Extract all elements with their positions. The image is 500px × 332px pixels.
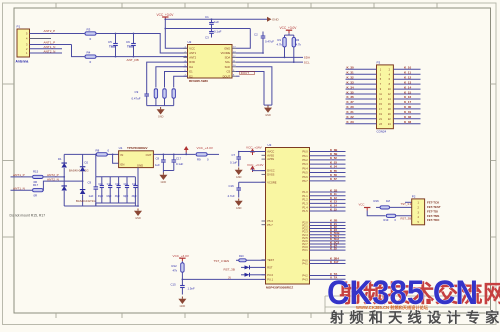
wire U2 GND pin up — [236, 29, 250, 49]
wire P3 right row 10 — [393, 113, 420, 115]
ic U3 MSP430 — [266, 148, 310, 285]
wire pin3 — [30, 44, 72, 46]
svg-text:P5.4: P5.4 — [267, 219, 273, 223]
svg-text:TST_3.3EN: TST_3.3EN — [214, 259, 230, 263]
svg-text:K_12: K_12 — [404, 75, 412, 79]
svg-text:FET-TDI: FET-TDI — [427, 209, 438, 213]
svg-text:BF6905-5980: BF6905-5980 — [189, 79, 208, 83]
svg-text:K_23: K_23 — [347, 120, 355, 124]
svg-text:P6.5: P6.5 — [302, 171, 308, 175]
svg-text:K_17: K_17 — [404, 100, 412, 104]
wire U3 P6.1 — [310, 155, 346, 157]
svg-text:DVSS: DVSS — [267, 173, 274, 177]
svg-text:SCL: SCL — [225, 60, 231, 64]
svg-text:VCORE: VCORE — [221, 51, 231, 55]
wire junction to R4 — [72, 45, 85, 57]
svg-text:C9: C9 — [135, 90, 139, 94]
svg-text:R19: R19 — [384, 218, 389, 222]
ground U2 cluster — [157, 107, 165, 119]
svg-text:GND: GND — [265, 114, 271, 117]
wire P3 left row 5 — [346, 88, 377, 90]
wire GND rail — [165, 28, 250, 30]
wire caps bottom bus — [96, 202, 136, 204]
svg-text:P6.2: P6.2 — [302, 158, 308, 162]
svg-text:C17: C17 — [176, 156, 182, 160]
wire TST P2 — [405, 201, 412, 203]
wire E1 down — [165, 72, 188, 88]
svg-text:1uF: 1uF — [214, 20, 219, 24]
svg-text:K_36: K_36 — [347, 95, 355, 99]
wire ANT1_N — [11, 189, 33, 191]
power arrow DVCC — [250, 166, 255, 173]
wire R16 left — [376, 206, 380, 208]
ground C15 — [178, 297, 186, 309]
capacitor C14 33pF — [133, 177, 137, 203]
svg-text:P1: P1 — [17, 25, 21, 29]
wire ground join — [264, 104, 272, 106]
diode D2 bottom — [80, 190, 86, 206]
svg-text:D2: D2 — [85, 161, 89, 165]
svg-text:P4.2: P4.2 — [302, 274, 308, 278]
svg-text:33pF: 33pF — [115, 196, 121, 198]
svg-text:P1.3: P1.3 — [302, 202, 308, 206]
svg-text:GND: GND — [137, 163, 143, 167]
svg-text:P1.0: P1.0 — [302, 190, 308, 194]
wire P3 right row 12 — [393, 123, 420, 125]
svg-text:1.5nF: 1.5nF — [188, 287, 195, 291]
svg-text:K_13: K_13 — [404, 80, 412, 84]
wire E2 down — [174, 76, 188, 87]
svg-text:BAS40-04LT1G: BAS40-04LT1G — [69, 169, 89, 173]
svg-text:ANT2: ANT2 — [189, 56, 196, 60]
wire U3 P6.0 — [310, 151, 346, 153]
svg-text:P6.6: P6.6 — [302, 175, 308, 179]
net label DOUT — [236, 75, 240, 77]
svg-text:R9: R9 — [197, 158, 201, 162]
wire R19 to P2 — [396, 216, 412, 217]
svg-text:K_00: K_00 — [404, 105, 412, 109]
wire R9 out — [207, 153, 219, 155]
svg-text:R8: R8 — [96, 149, 100, 153]
svg-text:47k: 47k — [173, 269, 178, 273]
wire U3 P1.5 — [310, 210, 346, 212]
wire P3 left row 10 — [346, 113, 377, 115]
svg-text:0.1uF: 0.1uF — [230, 161, 237, 165]
U2 pin stubs left — [184, 48, 188, 76]
wire U3 P2.7 — [310, 243, 346, 245]
capacitor C10u 0.1uF — [236, 182, 241, 197]
svg-text:VCC: VCC — [189, 46, 195, 50]
svg-text:U2: U2 — [188, 40, 192, 44]
resistor R10 small — [239, 259, 247, 262]
svg-text:P4.3: P4.3 — [302, 277, 308, 281]
wire P3 right row 5 — [393, 88, 420, 90]
svg-text:SDA: SDA — [304, 56, 310, 60]
ground regulator — [134, 209, 142, 221]
wire VCC rail — [165, 18, 267, 20]
svg-text:AVSS: AVSS — [267, 157, 274, 161]
title block lines — [325, 296, 491, 313]
wire U3 P2.0 — [310, 221, 346, 223]
svg-text:VCC: VCC — [359, 202, 365, 206]
wire P3 right row 4 — [393, 83, 420, 85]
wire VCORE to C2 — [236, 52, 263, 54]
wire U3 P2.2 — [310, 228, 346, 230]
capacitor C6 TBD — [131, 34, 136, 57]
svg-text:R1: R1 — [278, 38, 282, 42]
wire U1 OUT rail — [153, 153, 195, 155]
wire ANT2_P pin5 — [30, 33, 85, 35]
resistor R19 — [386, 214, 396, 217]
svg-text:C13: C13 — [124, 184, 129, 186]
wire SDA — [236, 56, 303, 58]
svg-text:RST_3B: RST_3B — [224, 268, 235, 272]
wire U1 gnd down — [137, 168, 139, 206]
resistor R12 — [181, 261, 184, 279]
svg-text:C9: C9 — [88, 180, 92, 184]
svg-text:CS: CS — [226, 70, 230, 74]
wire R16 to P2 — [390, 206, 412, 208]
wire U3 P2.3 — [310, 231, 346, 233]
svg-text:K_31: K_31 — [347, 70, 355, 74]
wire P3 right row 9 — [393, 108, 420, 110]
capacitor C17 0.1uF — [172, 154, 177, 170]
svg-text:C2: C2 — [254, 33, 258, 37]
svg-text:K_15: K_15 — [330, 207, 337, 211]
svg-text:K_33: K_33 — [347, 80, 355, 84]
svg-text:33pF: 33pF — [123, 196, 129, 198]
resistor R2 — [292, 35, 295, 47]
svg-text:IN: IN — [121, 153, 124, 157]
svg-text:OUT: OUT — [146, 153, 152, 157]
svg-text:BAS40-04LT1G: BAS40-04LT1G — [76, 199, 96, 203]
svg-text:K_01: K_01 — [404, 110, 412, 114]
wire P3 right row 3 — [393, 78, 420, 80]
svg-text:GND: GND — [158, 116, 164, 119]
svg-text:P3.1: P3.1 — [302, 248, 308, 252]
junction dots — [115, 33, 117, 35]
wire R3 to U2 ANT1 — [96, 34, 188, 54]
wire pin4 stub — [30, 38, 52, 40]
wire P3 right row 11 — [393, 118, 420, 120]
svg-text:K_15: K_15 — [404, 90, 412, 94]
wire TEST — [246, 259, 265, 261]
wire U3 P1.0 — [310, 191, 346, 193]
resistor R9 — [196, 153, 207, 156]
svg-text:VCORE: VCORE — [267, 180, 276, 184]
wire U3 P1.4 — [310, 206, 346, 208]
svg-text:4.7k: 4.7k — [277, 43, 283, 47]
svg-text:K_57: K_57 — [330, 177, 337, 181]
wire R4 to U2 ANT2 — [96, 56, 188, 58]
svg-text:Do not mount R15, R17: Do not mount R15, R17 — [10, 214, 46, 218]
svg-text:ANT2_N: ANT2_N — [44, 50, 56, 54]
wire P3 left row 3 — [346, 78, 377, 80]
wire P3 left row 4 — [346, 83, 377, 85]
power bar VCC — [162, 17, 168, 20]
svg-text:K_32: K_32 — [347, 75, 355, 79]
svg-text:1M: 1M — [386, 199, 391, 203]
wire DVCC — [253, 169, 266, 171]
svg-text:VCC_+3.0V: VCC_+3.0V — [247, 163, 264, 167]
power arrow VCC out — [184, 146, 189, 153]
U2 pin stubs right — [232, 48, 236, 76]
wire U3 P1.2 — [310, 199, 346, 201]
wire U3 P2.1 — [310, 224, 346, 226]
svg-text:0.1uF: 0.1uF — [176, 162, 183, 166]
svg-text:C10: C10 — [98, 184, 103, 186]
wire U3 P3.0 — [310, 259, 346, 261]
wire ANT1_P — [11, 176, 33, 178]
regulator U1 — [119, 151, 154, 168]
wire P3 left row 12 — [346, 123, 377, 125]
svg-text:DOUT: DOUT — [223, 74, 231, 78]
svg-text:VCC_+3AV: VCC_+3AV — [246, 146, 263, 150]
svg-text:C16: C16 — [229, 184, 235, 188]
svg-text:AVCC: AVCC — [267, 150, 274, 154]
svg-text:33pF: 33pF — [98, 196, 104, 198]
wire P3 left row 2 — [346, 73, 377, 75]
svg-text:0.47uF: 0.47uF — [265, 40, 274, 44]
svg-text:1uF: 1uF — [89, 194, 94, 198]
svg-text:GND: GND — [161, 181, 167, 184]
resistor R3 — [85, 32, 96, 35]
svg-text:K_34: K_34 — [347, 85, 355, 89]
wire pullup top — [288, 33, 290, 35]
ic U2 — [188, 45, 233, 79]
svg-text:K_25: K_25 — [330, 246, 337, 250]
wire U3 P2.4 — [310, 234, 346, 236]
wire U3 P2.8 — [310, 246, 346, 248]
wire P3 left row 8 — [346, 103, 377, 105]
U3 pin stubs left short — [262, 152, 266, 280]
resistor R6 — [163, 89, 166, 106]
svg-text:P4.1: P4.1 — [302, 262, 308, 266]
svg-text:K_16: K_16 — [404, 95, 412, 99]
svg-text:R4: R4 — [87, 51, 91, 55]
wire DA down — [156, 67, 188, 88]
svg-text:SCL: SCL — [304, 60, 310, 64]
wire bridge top rail — [64, 153, 118, 155]
resistor R7 — [172, 89, 175, 106]
svg-text:K_14: K_14 — [404, 85, 412, 89]
resistor R16 — [380, 206, 390, 209]
wire U3 P6.4 — [310, 167, 346, 169]
svg-text:0.47uF: 0.47uF — [132, 97, 141, 101]
wire U3 P1.1 — [310, 195, 346, 197]
resistor R1 — [283, 35, 286, 47]
svg-text:K_30: K_30 — [347, 66, 355, 70]
svg-text:P1.2: P1.2 — [302, 198, 308, 202]
capacitor C10 33pF — [100, 177, 104, 203]
svg-text:P1.1: P1.1 — [302, 194, 308, 198]
diode D4 — [241, 273, 266, 277]
svg-text:VCC_+3.0V: VCC_+3.0V — [173, 254, 190, 258]
svg-text:JU: JU — [228, 275, 231, 279]
svg-text:DVCC: DVCC — [267, 169, 274, 173]
wire SCK to ground — [236, 67, 272, 105]
resistor R8 — [96, 153, 107, 156]
diode D1 bottom — [61, 186, 66, 206]
wire pin1 — [30, 52, 63, 54]
svg-text:R2: R2 — [296, 38, 300, 42]
capacitor C1 — [209, 19, 214, 28]
svg-text:U3: U3 — [268, 143, 272, 147]
wire P3 right row 6 — [393, 93, 420, 95]
svg-text:R16: R16 — [374, 199, 380, 203]
svg-text:33pF: 33pF — [106, 196, 112, 198]
svg-text:AVSS: AVSS — [267, 153, 274, 157]
svg-text:ANT1: ANT1 — [189, 51, 196, 55]
junction dots bridge — [63, 176, 65, 178]
svg-text:DOUT: DOUT — [241, 71, 249, 75]
svg-text:C3: C3 — [205, 36, 209, 40]
svg-text:K_317: K_317 — [330, 260, 339, 264]
wire U3 P2.9 — [310, 249, 346, 251]
svg-text:ANT1_N: ANT1_N — [44, 45, 56, 49]
svg-text:C15: C15 — [171, 283, 177, 287]
svg-text:GND: GND — [236, 207, 242, 210]
svg-text:VCC_+3.0V: VCC_+3.0V — [197, 146, 214, 150]
ground C7 — [235, 168, 243, 180]
wire U3 P2.5 — [310, 237, 346, 239]
svg-text:R10: R10 — [239, 255, 244, 258]
wire U3 P1.3 — [310, 202, 346, 204]
wire U3 P6.5 — [310, 172, 346, 174]
wire U3 P2.6 — [310, 240, 346, 242]
resistor R17 — [33, 189, 44, 192]
wire SCL — [236, 61, 303, 63]
wire P3 left row 11 — [346, 118, 377, 120]
resistor R5 — [154, 89, 157, 106]
svg-text:R17: R17 — [33, 183, 39, 187]
svg-text:C12: C12 — [115, 184, 120, 186]
svg-text:C5: C5 — [108, 40, 112, 44]
wire U3 P6.7 — [310, 180, 346, 182]
wire P3 right row 2 — [393, 73, 420, 75]
svg-text:C1: C1 — [205, 15, 209, 19]
svg-text:GND: GND — [135, 217, 141, 220]
svg-text:TBD: TBD — [127, 45, 134, 49]
svg-text:E1: E1 — [189, 70, 193, 74]
svg-text:RXD: RXD — [189, 60, 195, 64]
wire P3 right row 1 — [393, 68, 420, 70]
svg-text:P6.0: P6.0 — [302, 150, 308, 154]
wire pin2 — [30, 48, 63, 50]
svg-text:FET-TEST: FET-TEST — [427, 205, 441, 209]
U2 pin numbers — [185, 47, 237, 77]
wire RST long — [182, 278, 265, 280]
svg-text:TEST: TEST — [267, 258, 274, 262]
svg-text:GND: GND — [236, 176, 242, 179]
svg-text:FET-TDO: FET-TDO — [427, 218, 440, 222]
svg-text:GND: GND — [180, 305, 186, 308]
svg-text:K_02: K_02 — [404, 115, 412, 119]
svg-text:K_37: K_37 — [347, 100, 355, 104]
diode D2 top — [80, 154, 86, 189]
wire bridge bottom rail — [64, 205, 138, 207]
wire U3 P3.1 — [310, 263, 346, 265]
svg-text:1uF: 1uF — [155, 163, 160, 167]
svg-text:ANT1_P: ANT1_P — [44, 40, 56, 44]
svg-text:K_20: K_20 — [347, 105, 355, 109]
wire P3 left row 9 — [346, 108, 377, 110]
svg-text:0R: 0R — [34, 193, 38, 197]
svg-text:P1.4: P1.4 — [302, 205, 308, 209]
svg-text:P2: P2 — [412, 194, 416, 198]
svg-text:D1: D1 — [58, 157, 62, 161]
svg-text:RST_3B: RST_3B — [401, 217, 412, 221]
svg-text:P1.5: P1.5 — [302, 209, 308, 213]
svg-text:E2: E2 — [189, 74, 193, 78]
wire ANT1_P into D1 mid — [63, 176, 65, 178]
junction dots rails — [211, 18, 213, 20]
svg-text:R12: R12 — [172, 264, 178, 268]
resistor R4 — [85, 55, 96, 58]
svg-text:R15: R15 — [33, 170, 39, 174]
capacitor C3 — [209, 29, 214, 38]
svg-text:K_10: K_10 — [404, 66, 412, 70]
svg-text:GND: GND — [224, 46, 230, 50]
ground port GND right — [267, 17, 280, 22]
svg-text:EN: EN — [121, 162, 125, 166]
connector P2 FET — [412, 199, 425, 225]
ground C8 — [159, 173, 167, 185]
resistor R15 — [33, 175, 44, 178]
capacitor C8 1uF — [161, 154, 166, 170]
power bar R12 — [179, 258, 185, 261]
svg-text:P5.7: P5.7 — [267, 223, 273, 227]
wire R15 to bridge — [43, 176, 64, 178]
svg-text:R3: R3 — [87, 28, 91, 32]
svg-text:K_22: K_22 — [347, 115, 355, 119]
svg-text:K_21: K_21 — [347, 110, 355, 114]
svg-text:C7: C7 — [232, 153, 236, 157]
svg-text:P6.7: P6.7 — [302, 179, 308, 183]
capacitor C11 33pF — [108, 177, 112, 203]
wire CS to ground — [236, 72, 264, 106]
svg-text:P6.1: P6.1 — [302, 154, 308, 158]
ground U2 right — [264, 105, 272, 117]
wire R17 to bridge — [43, 181, 83, 190]
connector P3 header — [377, 65, 394, 129]
diode D1 top — [61, 154, 66, 185]
wire U3 P6.6 — [310, 176, 346, 178]
svg-text:FET-TMS: FET-TMS — [427, 214, 439, 218]
svg-text:K_11: K_11 — [404, 70, 411, 74]
wire VCORE — [239, 181, 266, 183]
svg-text:ANT2_P: ANT2_P — [44, 29, 56, 33]
svg-text:4.7k: 4.7k — [296, 43, 302, 47]
svg-text:射频和天线设计专家: 射频和天线设计专家 — [329, 310, 500, 327]
svg-text:C6: C6 — [126, 40, 130, 44]
ground C10 — [235, 199, 243, 211]
capacitor bank rail — [96, 176, 136, 178]
wire P3 left row 6 — [346, 93, 377, 95]
svg-text:ANT_DB: ANT_DB — [127, 58, 139, 62]
svg-text:P3: P3 — [377, 60, 381, 64]
svg-text:PU.1: PU.1 — [267, 278, 273, 282]
svg-text:K_35: K_35 — [347, 90, 355, 94]
wire EN pin — [113, 154, 119, 163]
capacitor C13 33pF — [125, 177, 129, 203]
connector P1 (Antenna) — [17, 29, 30, 57]
wire U3 P4.0 — [310, 275, 346, 277]
svg-text:4.7uF: 4.7uF — [228, 194, 235, 198]
svg-text:C14: C14 — [132, 184, 137, 186]
svg-text:P6.4: P6.4 — [302, 166, 308, 170]
wire P3 left row 7 — [346, 98, 377, 100]
